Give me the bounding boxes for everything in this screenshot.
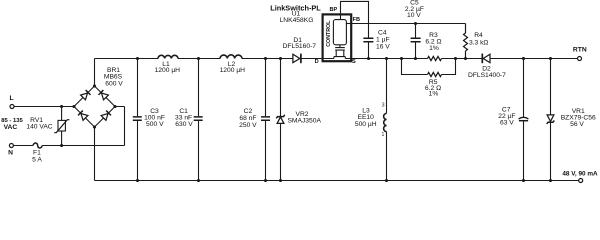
- inductor L3: [355, 59, 387, 181]
- svg-text:56 V: 56 V: [570, 121, 584, 128]
- diode D1: [283, 37, 317, 63]
- wire bridge bottom riser: [94, 127, 96, 181]
- node L3 top: [385, 57, 388, 60]
- svg-text:500 µH: 500 µH: [355, 121, 377, 128]
- zener VR1: [547, 59, 596, 181]
- node C7 bottom: [522, 179, 525, 182]
- wire L line: [14, 106, 74, 108]
- op-amp U1 IC LinkSwitch-PL: [270, 3, 360, 65]
- resistor R4: [464, 24, 489, 59]
- resistor R5 bypass loop: [402, 59, 456, 98]
- node VR2 top: [279, 57, 282, 60]
- svg-text:BP: BP: [330, 7, 338, 13]
- node C5 bottom: [414, 57, 417, 60]
- node L3 bottom: [385, 179, 388, 182]
- capacitor C3: [133, 59, 165, 181]
- wire S line: [351, 58, 428, 60]
- wire output line: [490, 58, 578, 60]
- varistor RV1: [26, 107, 69, 146]
- node RV1 bottom: [60, 144, 63, 147]
- TVS VR2: [276, 59, 321, 181]
- svg-text:1200 µH: 1200 µH: [155, 67, 181, 74]
- node C1 bottom: [197, 179, 200, 182]
- svg-text:16 V: 16 V: [376, 43, 390, 50]
- svg-text:63 V: 63 V: [500, 119, 514, 126]
- transistor MOSFET inside U1: [323, 45, 351, 59]
- wire bottom rail: [95, 180, 579, 182]
- inductor L1: [155, 55, 181, 74]
- svg-text:630 V: 630 V: [175, 121, 193, 128]
- bridge rectifier BR1: [72, 67, 123, 129]
- node C3 bottom: [136, 179, 139, 182]
- wire S line to D2: [442, 58, 482, 60]
- capacitor C5: [405, 0, 424, 58]
- node VR1 top: [549, 57, 552, 60]
- node C1 top: [197, 57, 200, 60]
- capacitor C1: [175, 59, 203, 181]
- node C2 bottom: [264, 179, 267, 182]
- capacitor C2: [239, 59, 270, 181]
- svg-text:48 V, 90 mA: 48 V, 90 mA: [562, 171, 598, 178]
- node VR2 bottom: [279, 179, 282, 182]
- node C4 bottom: [367, 57, 370, 60]
- svg-text:1%: 1%: [429, 45, 439, 52]
- wire top rail segment 2: [178, 58, 220, 60]
- terminal output 48V: [562, 171, 598, 183]
- svg-text:S: S: [352, 59, 356, 65]
- svg-text:CONTROL: CONTROL: [326, 20, 332, 47]
- svg-text:250 V: 250 V: [239, 122, 257, 129]
- resistor R3: [425, 32, 441, 60]
- wire top rail segment 1: [95, 58, 159, 60]
- svg-text:DFLS1400-7: DFLS1400-7: [468, 72, 506, 79]
- svg-text:F1: F1: [33, 149, 41, 156]
- capacitor C4: [363, 30, 390, 59]
- svg-text:SMAJ350A: SMAJ350A: [287, 118, 321, 125]
- node C3 top: [136, 57, 139, 60]
- wire D1 to IC: [302, 58, 323, 60]
- svg-text:L: L: [9, 95, 13, 102]
- node C2 top: [264, 57, 267, 60]
- svg-text:D: D: [315, 59, 319, 65]
- svg-text:N: N: [8, 149, 13, 156]
- diode D2: [468, 54, 506, 79]
- node VR1 bottom: [549, 179, 552, 182]
- svg-text:1%: 1%: [429, 91, 439, 98]
- svg-text:3: 3: [382, 102, 385, 108]
- label input voltage: [1, 118, 23, 131]
- wire bridge top riser: [94, 59, 96, 87]
- svg-text:LNK458KG: LNK458KG: [280, 17, 314, 24]
- node C7 top: [522, 57, 525, 60]
- svg-text:R4: R4: [474, 32, 483, 39]
- terminal RTN: [573, 47, 587, 61]
- node C5 top: [414, 22, 417, 25]
- svg-text:10 V: 10 V: [407, 12, 421, 19]
- node R5 left: [400, 57, 403, 60]
- svg-text:600 V: 600 V: [105, 80, 123, 87]
- wire BP: [341, 1, 369, 38]
- wire FB line: [352, 23, 466, 25]
- svg-text:C4: C4: [378, 30, 387, 37]
- wire fuse to bridge right: [42, 107, 124, 146]
- wire N to fuse: [13, 145, 33, 147]
- capacitor C7: [498, 59, 528, 181]
- svg-text:RTN: RTN: [573, 47, 587, 54]
- node RV1 top: [60, 105, 63, 108]
- svg-text:500 V: 500 V: [146, 121, 164, 128]
- node R5 right: [454, 57, 457, 60]
- svg-text:140 VAC: 140 VAC: [26, 123, 52, 130]
- svg-text:DFL5160-7: DFL5160-7: [283, 43, 317, 50]
- inductor L2: [220, 55, 246, 74]
- svg-text:1: 1: [382, 132, 385, 138]
- wire top rail segment 3: [242, 58, 293, 60]
- svg-text:1200 µH: 1200 µH: [220, 67, 246, 74]
- terminal N: [8, 144, 13, 157]
- svg-text:5 A: 5 A: [32, 157, 42, 164]
- svg-text:FB: FB: [353, 17, 360, 23]
- node R4 bottom: [464, 57, 467, 60]
- fuse F1: [32, 143, 42, 164]
- svg-text:VAC: VAC: [4, 124, 18, 131]
- svg-text:3.3 kΩ: 3.3 kΩ: [469, 39, 489, 46]
- terminal L: [9, 95, 14, 108]
